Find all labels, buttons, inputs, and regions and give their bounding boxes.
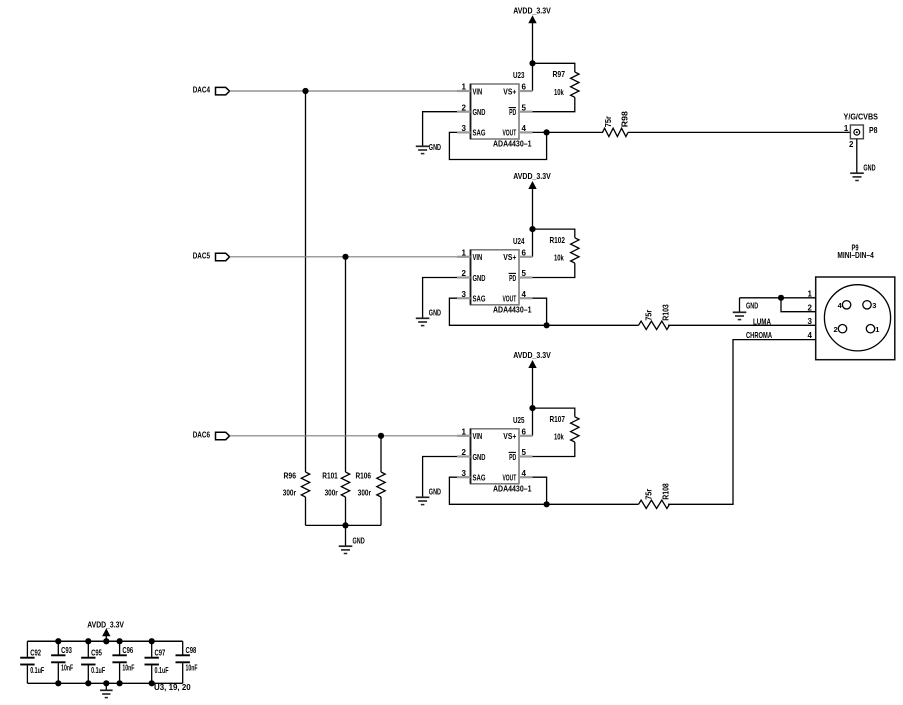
- pin 1 VIN: [457, 83, 471, 92]
- svg-text:10nF: 10nF: [122, 663, 134, 673]
- svg-text:10nF: 10nF: [186, 663, 198, 673]
- svg-text:U3, 19, 20: U3, 19, 20: [154, 682, 191, 692]
- svg-text:AVDD_3.3V: AVDD_3.3V: [513, 171, 551, 181]
- svg-text:GND: GND: [473, 452, 486, 462]
- wire CHROMA net: [668, 340, 816, 505]
- svg-text:4: 4: [522, 469, 527, 478]
- svg-text:10nF: 10nF: [61, 663, 73, 673]
- svg-text:5: 5: [522, 448, 527, 457]
- svg-text:75r: 75r: [603, 116, 613, 128]
- pin 2 GND: [457, 269, 471, 278]
- svg-text:DAC4: DAC4: [193, 85, 210, 95]
- svg-text:4: 4: [522, 290, 527, 299]
- wire: [532, 23, 534, 63]
- svg-text:VIN: VIN: [473, 252, 483, 262]
- svg-text:R98: R98: [620, 111, 630, 127]
- connector P9 MINI-DIN-4: [816, 242, 895, 359]
- wire: [345, 257, 347, 472]
- connector DAC4: [193, 85, 230, 95]
- svg-text:300r: 300r: [283, 488, 297, 498]
- wire SAG feedback loop: [449, 298, 638, 325]
- svg-text:VIN: VIN: [473, 431, 483, 441]
- svg-text:C92: C92: [30, 648, 41, 658]
- pin 1 circle P9: [866, 325, 879, 334]
- svg-text:Y/G/CVBS: Y/G/CVBS: [844, 111, 879, 121]
- wire: [306, 524, 382, 526]
- node DAC5 junction: [342, 254, 348, 260]
- wire: [533, 97, 575, 111]
- svg-text:6: 6: [522, 428, 527, 437]
- wire: [532, 229, 534, 257]
- svg-text:3: 3: [808, 317, 813, 326]
- svg-text:2: 2: [462, 103, 467, 112]
- resistor R98 75r: [603, 111, 630, 137]
- capacitor C96 10nF: [112, 641, 134, 683]
- wire: [230, 435, 457, 437]
- svg-text:75r: 75r: [643, 309, 653, 321]
- pin 3 P9 LUMA: [753, 317, 813, 327]
- wire: [533, 298, 547, 325]
- ground (P8): [850, 163, 875, 181]
- svg-text:10k: 10k: [554, 253, 564, 263]
- wire: [105, 683, 107, 689]
- capacitor C97 0.1uF: [145, 641, 169, 683]
- ground (stage U24): [416, 308, 441, 326]
- svg-text:300r: 300r: [325, 488, 339, 498]
- svg-text:P8: P8: [869, 125, 878, 135]
- ground (P9): [733, 301, 759, 320]
- svg-text:5: 5: [522, 269, 527, 278]
- resistor R108 75r: [639, 483, 671, 509]
- wire: [532, 368, 534, 408]
- pin 1 P8: [844, 124, 849, 133]
- svg-text:C96: C96: [122, 645, 133, 655]
- node AVDD junction (stage U23): [529, 60, 535, 66]
- svg-text:R106: R106: [356, 470, 372, 480]
- wire: [533, 229, 575, 238]
- wire: [628, 131, 850, 133]
- power AVDD_3.3V (stage U24): [513, 171, 551, 189]
- power AVDD_3.3V (cap bank): [87, 619, 124, 636]
- svg-text:GND: GND: [353, 535, 365, 545]
- svg-text:3: 3: [462, 469, 467, 478]
- svg-text:MINI–DIN–4: MINI–DIN–4: [837, 250, 874, 260]
- pin 1 VIN: [457, 428, 471, 437]
- node VOUT junction: [544, 501, 550, 507]
- svg-text:0.1uF: 0.1uF: [91, 665, 105, 675]
- wire: [105, 636, 107, 642]
- wire: [423, 278, 457, 319]
- svg-text:VOUT: VOUT: [503, 294, 517, 304]
- pin 4 VOUT: [519, 290, 533, 299]
- power AVDD_3.3V (stage U23): [513, 5, 551, 23]
- svg-text:R107: R107: [550, 414, 566, 424]
- svg-text:SAG: SAG: [473, 128, 486, 138]
- node DAC4 junction: [302, 88, 308, 94]
- svg-text:AVDD_3.3V: AVDD_3.3V: [513, 350, 551, 360]
- capacitor C98 10nF: [176, 641, 198, 683]
- svg-text:4: 4: [522, 124, 527, 133]
- node rail junction C97: [149, 638, 155, 686]
- svg-text:R108: R108: [661, 483, 671, 500]
- pin 2 GND: [457, 103, 471, 112]
- pin 6 VS+: [519, 249, 533, 258]
- svg-text:DAC5: DAC5: [193, 250, 210, 260]
- wire: [230, 90, 457, 92]
- svg-text:1: 1: [844, 124, 849, 133]
- svg-text:AVDD_3.3V: AVDD_3.3V: [513, 5, 551, 15]
- svg-text:U24: U24: [513, 236, 525, 246]
- svg-text:U23: U23: [513, 70, 525, 80]
- svg-text:2: 2: [808, 303, 813, 312]
- wire: [345, 525, 347, 545]
- svg-text:10k: 10k: [554, 87, 564, 97]
- svg-text:R102: R102: [550, 235, 566, 245]
- svg-text:3: 3: [462, 124, 467, 133]
- op-amp U24 ADA4430-1: [471, 236, 532, 314]
- svg-text:PD: PD: [509, 107, 516, 117]
- svg-text:C93: C93: [61, 645, 72, 655]
- svg-text:C95: C95: [91, 648, 102, 658]
- svg-text:R97: R97: [553, 69, 566, 79]
- wire LUMA net: [668, 324, 816, 326]
- svg-text:VS+: VS+: [503, 252, 516, 262]
- node termination junction: [342, 522, 348, 528]
- ground (stage U25): [416, 487, 441, 505]
- svg-text:10k: 10k: [554, 432, 564, 442]
- resistor R101 300r: [322, 470, 349, 525]
- resistor R106 300r: [356, 470, 386, 525]
- svg-text:GND: GND: [746, 301, 758, 311]
- pin 3 SAG: [457, 290, 471, 299]
- svg-text:0.1uF: 0.1uF: [30, 665, 44, 675]
- pin 4 VOUT: [519, 469, 533, 478]
- wire ground rail: [27, 682, 182, 684]
- pin 3 SAG: [457, 469, 471, 478]
- pin 2 GND: [457, 448, 471, 457]
- svg-text:GND: GND: [429, 487, 441, 497]
- svg-text:R96: R96: [284, 470, 297, 480]
- node DAC6 junction: [378, 433, 384, 439]
- pin 6 VS+: [519, 83, 533, 92]
- svg-text:6: 6: [522, 249, 527, 258]
- svg-text:U25: U25: [513, 415, 525, 425]
- label U3, 19, 20: [154, 682, 191, 692]
- svg-text:75r: 75r: [643, 488, 653, 500]
- svg-text:VOUT: VOUT: [503, 128, 517, 138]
- svg-text:CHROMA: CHROMA: [746, 330, 772, 340]
- connector DAC6: [193, 429, 230, 439]
- pin 4 VOUT: [519, 124, 533, 133]
- wire: [533, 408, 575, 417]
- svg-text:VS+: VS+: [503, 431, 516, 441]
- pin 2 P8: [849, 139, 857, 173]
- svg-text:3: 3: [872, 301, 876, 310]
- pin 1 P9: [740, 289, 816, 298]
- ground (stage U23): [416, 142, 441, 154]
- wire: [533, 131, 604, 133]
- svg-text:2: 2: [849, 140, 854, 149]
- wire SAG feedback loop: [449, 132, 546, 159]
- svg-text:VS+: VS+: [503, 86, 516, 96]
- svg-text:6: 6: [522, 83, 527, 92]
- wire: [533, 63, 575, 72]
- svg-text:R103: R103: [661, 304, 671, 321]
- svg-text:VOUT: VOUT: [503, 473, 517, 483]
- pin 3 circle P9: [863, 301, 877, 310]
- svg-text:ADA4430–1: ADA4430–1: [493, 483, 532, 493]
- node AVDD junction (stage U25): [529, 405, 535, 411]
- node P9 ground junction: [778, 295, 784, 301]
- svg-text:PD: PD: [509, 452, 516, 462]
- svg-text:GND: GND: [429, 142, 441, 152]
- resistor R96 300r: [283, 470, 310, 525]
- svg-text:C98: C98: [186, 645, 197, 655]
- op-amp U25 ADA4430-1: [471, 415, 532, 494]
- svg-text:AVDD_3.3V: AVDD_3.3V: [87, 619, 124, 629]
- pin 4 P9 CHROMA: [746, 330, 813, 340]
- node rail junction C95: [85, 638, 91, 686]
- svg-text:GND: GND: [473, 273, 486, 283]
- svg-text:1: 1: [808, 289, 813, 298]
- resistor R97: [553, 69, 580, 97]
- svg-text:5: 5: [522, 103, 527, 112]
- wire: [532, 189, 534, 229]
- wire: [533, 477, 547, 504]
- node VOUT junction: [544, 129, 550, 135]
- svg-text:DAC6: DAC6: [193, 429, 210, 439]
- ground (termination): [339, 535, 365, 553]
- pin 2 P9: [781, 298, 816, 313]
- svg-text:ADA4430–1: ADA4430–1: [493, 139, 532, 149]
- wire: [305, 91, 307, 472]
- resistor R107: [550, 414, 580, 442]
- connector DAC5: [193, 250, 230, 260]
- svg-text:GND: GND: [863, 163, 875, 173]
- svg-text:ADA4430–1: ADA4430–1: [493, 304, 532, 314]
- svg-text:2: 2: [462, 269, 467, 278]
- wire: [532, 63, 534, 91]
- svg-text:300r: 300r: [358, 488, 372, 498]
- wire: [423, 457, 457, 498]
- ground (cap bank): [100, 690, 113, 697]
- pin 5 PD: [519, 103, 533, 112]
- op-amp U23 ADA4430-1: [471, 70, 532, 149]
- pin 4 circle P9: [838, 301, 851, 310]
- svg-text:1: 1: [462, 249, 467, 258]
- svg-text:C97: C97: [155, 648, 166, 658]
- resistor R103 75r: [639, 304, 671, 330]
- svg-text:PD: PD: [509, 273, 516, 283]
- capacitor C93 10nF: [51, 641, 73, 683]
- pin 5 PD: [519, 269, 533, 278]
- svg-text:2: 2: [834, 325, 838, 334]
- svg-text:LUMA: LUMA: [753, 317, 771, 327]
- svg-text:GND: GND: [429, 308, 441, 318]
- svg-text:1: 1: [462, 428, 467, 437]
- svg-text:SAG: SAG: [473, 294, 486, 304]
- connector P8 Y/G/CVBS: [844, 111, 879, 139]
- wire: [230, 256, 457, 258]
- wire: [423, 112, 457, 147]
- svg-text:0.1uF: 0.1uF: [155, 665, 169, 675]
- svg-text:SAG: SAG: [473, 473, 486, 483]
- node ground rail junction: [103, 680, 109, 686]
- wire: [532, 408, 534, 436]
- power AVDD_3.3V (stage U25): [513, 350, 551, 368]
- svg-text:R101: R101: [322, 470, 338, 480]
- svg-text:1: 1: [462, 83, 467, 92]
- capacitor C95 0.1uF: [81, 641, 105, 683]
- wire: [533, 442, 575, 456]
- svg-text:1: 1: [875, 325, 879, 334]
- wire: [533, 263, 575, 277]
- svg-text:3: 3: [462, 290, 467, 299]
- node rail junction: [103, 638, 109, 644]
- pin 3 SAG: [457, 124, 471, 133]
- pin 6 VS+: [519, 428, 533, 437]
- pin 1 VIN: [457, 249, 471, 258]
- svg-text:VIN: VIN: [473, 86, 483, 96]
- wire: [739, 298, 741, 312]
- node VOUT junction: [544, 322, 550, 328]
- svg-text:4: 4: [808, 331, 813, 340]
- wire AVDD rail: [27, 640, 182, 642]
- resistor R102: [550, 235, 580, 263]
- wire SAG feedback loop: [449, 477, 638, 504]
- svg-text:2: 2: [462, 448, 467, 457]
- node AVDD junction (stage U24): [529, 226, 535, 232]
- svg-text:GND: GND: [473, 107, 486, 117]
- pin 2 circle P9: [834, 325, 847, 334]
- capacitor C92 0.1uF: [20, 641, 44, 683]
- node rail junction C93: [55, 638, 61, 686]
- node rail junction C96: [117, 638, 123, 686]
- wire: [380, 436, 382, 472]
- pin 5 PD: [519, 448, 533, 457]
